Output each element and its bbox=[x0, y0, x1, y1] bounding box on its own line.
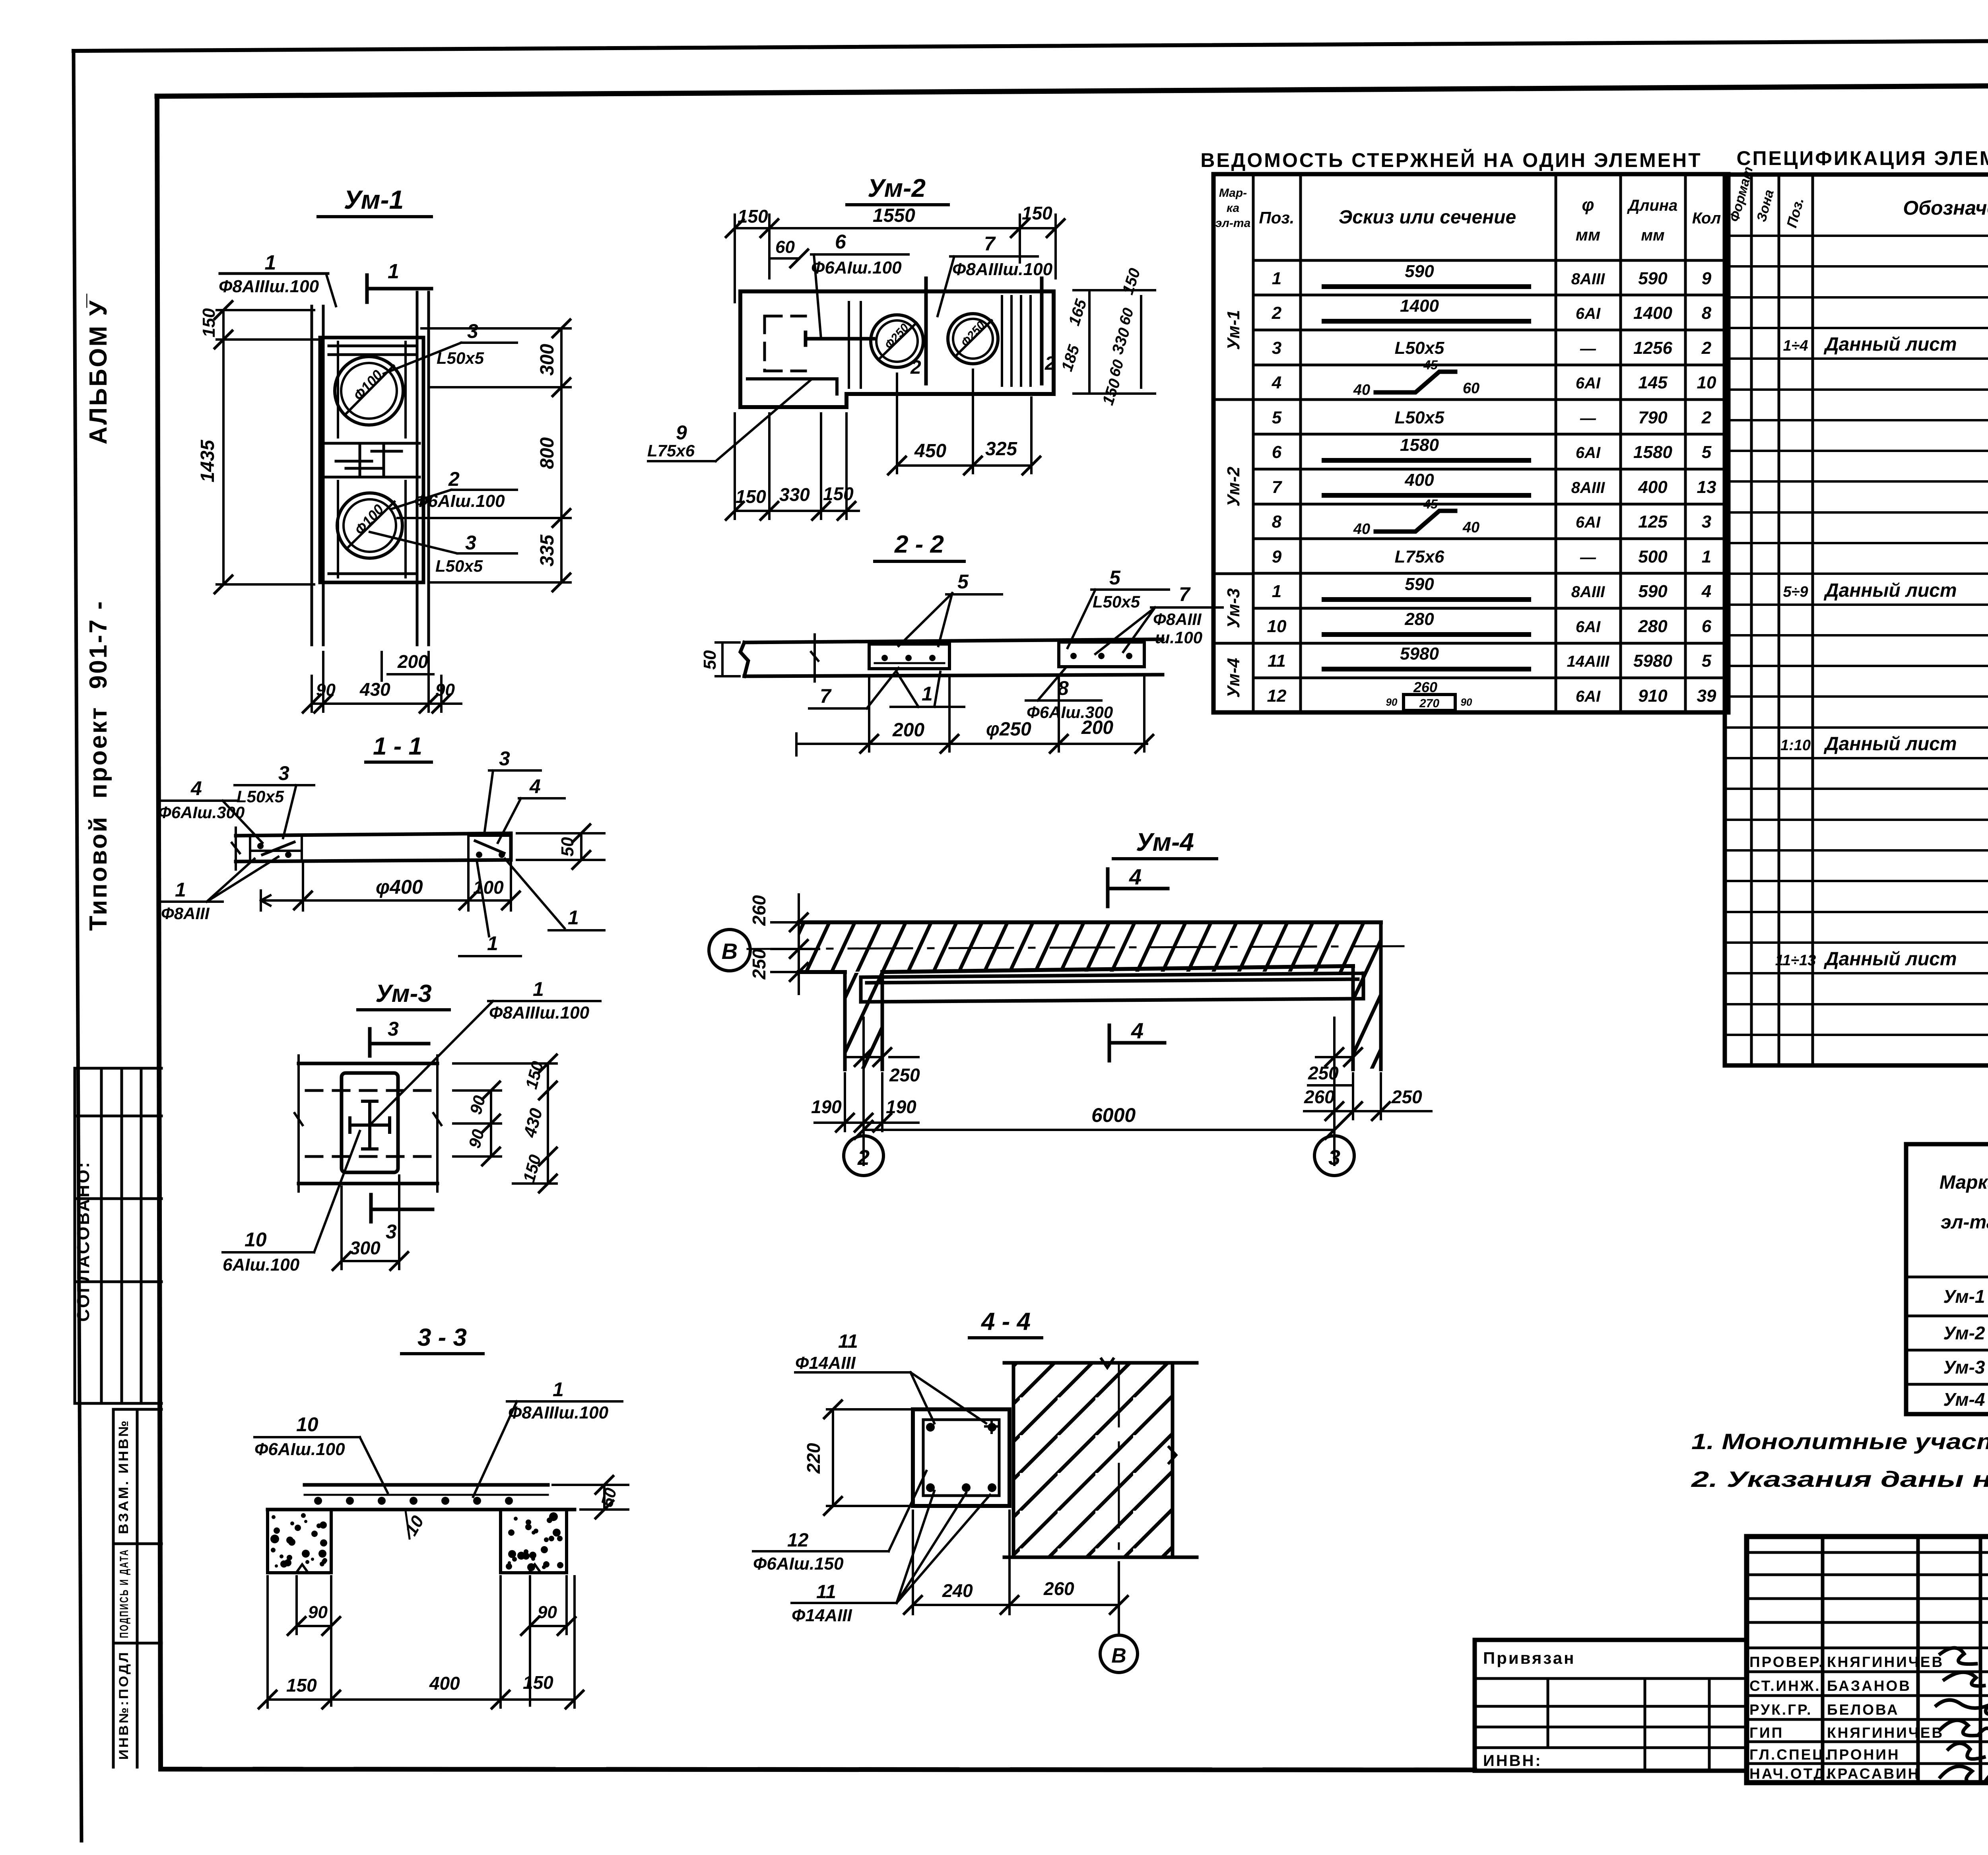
svg-text:1. Монолитные участки замарк: 1. Монолитные участки замаркированы на л… bbox=[1691, 1429, 1988, 1454]
svg-text:1550: 1550 bbox=[873, 205, 915, 226]
svg-text:200: 200 bbox=[892, 720, 924, 741]
svg-text:—: — bbox=[1580, 549, 1596, 566]
svg-text:L50x5: L50x5 bbox=[435, 557, 483, 575]
svg-text:φ400: φ400 bbox=[376, 876, 423, 898]
vedomost vertical grid bbox=[1253, 174, 1685, 712]
spec header labels bbox=[1727, 165, 1988, 229]
section mark 4 mid bbox=[1109, 1025, 1165, 1061]
svg-text:240: 240 bbox=[942, 1580, 973, 1601]
vedomost horizontal grid bbox=[1253, 260, 1728, 678]
spec rows content bbox=[1775, 273, 1988, 1031]
svg-text:Ф6АIш.150: Ф6АIш.150 bbox=[753, 1554, 844, 1574]
svg-text:250: 250 bbox=[1391, 1087, 1422, 1107]
leader 3 L50x5 top bbox=[384, 343, 517, 374]
УМ-1 cage box bbox=[320, 338, 423, 582]
pipe circle bottom bbox=[337, 493, 402, 558]
svg-text:Ум-3: Ум-3 bbox=[1224, 588, 1243, 628]
svg-text:10: 10 bbox=[401, 1512, 428, 1539]
svg-text:Ум-4: Ум-4 bbox=[1224, 658, 1243, 698]
leader 3 L50x5 bottom bbox=[370, 532, 517, 553]
svg-text:39: 39 bbox=[1697, 686, 1716, 706]
svg-text:Ф8АIII: Ф8АIII bbox=[1153, 610, 1202, 629]
svg-text:12: 12 bbox=[1267, 686, 1287, 706]
svg-text:L50x5: L50x5 bbox=[1395, 338, 1444, 358]
svg-text:6АI: 6АI bbox=[1576, 374, 1601, 392]
svg-text:1580: 1580 bbox=[1400, 435, 1439, 455]
УМ-3 band edges bbox=[299, 1063, 437, 1184]
svg-text:L50x5: L50x5 bbox=[1395, 408, 1444, 427]
svg-text:ВЕДОМОСТЬ СТЕРЖНЕЙ НА ОДИН ЭЛЕ: ВЕДОМОСТЬ СТЕРЖНЕЙ НА ОДИН ЭЛЕМЕНТ bbox=[1200, 149, 1702, 171]
svg-text:260: 260 bbox=[749, 895, 769, 926]
right support sub dims 250 260 250 bbox=[1308, 1057, 1353, 1085]
svg-text:8: 8 bbox=[1272, 512, 1282, 532]
svg-text:Ум-1: Ум-1 bbox=[1943, 1286, 1985, 1307]
1-1 break left bbox=[232, 828, 240, 869]
svg-text:3 - 3: 3 - 3 bbox=[417, 1324, 467, 1351]
2-2 left insert box bbox=[869, 644, 949, 669]
svg-text:7: 7 bbox=[1179, 583, 1191, 605]
pipe circle right bbox=[948, 314, 998, 364]
section mark 3 top bbox=[370, 1029, 429, 1056]
svg-text:4: 4 bbox=[1131, 1018, 1143, 1043]
svg-text:150: 150 bbox=[523, 1672, 553, 1693]
svg-text:300: 300 bbox=[537, 344, 558, 376]
svg-text:3: 3 bbox=[465, 532, 476, 554]
vyborka data bbox=[1943, 1286, 1988, 1410]
svg-text:6: 6 bbox=[1272, 442, 1282, 462]
svg-text:Ф6АIш.100: Ф6АIш.100 bbox=[414, 491, 505, 511]
svg-text:L75x6: L75x6 bbox=[647, 441, 695, 460]
svg-text:мм: мм bbox=[1576, 225, 1600, 244]
svg-text:8АIII: 8АIII bbox=[1571, 270, 1605, 288]
svg-text:Ум-1: Ум-1 bbox=[1224, 310, 1243, 350]
svg-text:Ф8АIIIш.100: Ф8АIIIш.100 bbox=[219, 277, 319, 296]
svg-text:10: 10 bbox=[1697, 373, 1716, 392]
svg-text:Данный лист: Данный лист bbox=[1823, 580, 1957, 601]
svg-text:165: 165 bbox=[1065, 297, 1090, 328]
svg-text:КНЯГИНИЧЕВ: КНЯГИНИЧЕВ bbox=[1827, 1654, 1944, 1670]
svg-text:Данный лист: Данный лист bbox=[1823, 334, 1957, 355]
svg-text:ИНВН:: ИНВН: bbox=[1483, 1752, 1542, 1770]
svg-text:190: 190 bbox=[886, 1096, 916, 1117]
right support block (stippled) bbox=[501, 1510, 567, 1573]
svg-text:4: 4 bbox=[529, 775, 541, 797]
svg-text:Ф6АIш.100: Ф6АIш.100 bbox=[254, 1440, 345, 1459]
svg-text:В: В bbox=[722, 939, 738, 964]
svg-text:Ф14АIII: Ф14АIII bbox=[792, 1606, 852, 1625]
svg-text:СТ.ИНЖ.: СТ.ИНЖ. bbox=[1749, 1678, 1821, 1694]
dims 90 90 bbox=[297, 1576, 567, 1706]
svg-text:Типовой проект 901-7 -: Типовой проект 901-7 - bbox=[85, 600, 112, 931]
band break right bbox=[433, 1056, 441, 1191]
svg-text:3: 3 bbox=[278, 762, 289, 784]
svg-text:590: 590 bbox=[1405, 574, 1434, 594]
rebar verticals right cluster bbox=[1002, 296, 1031, 386]
2-2 bottom dims 200 f250 200 bbox=[796, 676, 1147, 751]
svg-text:1 - 1: 1 - 1 bbox=[373, 733, 422, 760]
svg-text:90: 90 bbox=[538, 1603, 557, 1622]
svg-text:450: 450 bbox=[914, 440, 946, 462]
svg-text:2: 2 bbox=[910, 357, 921, 378]
svg-text:1÷4: 1÷4 bbox=[1783, 338, 1808, 354]
svg-text:330: 330 bbox=[779, 484, 810, 505]
signatures squiggles bbox=[1936, 1648, 1988, 1783]
svg-text:Ф14АIII: Ф14АIII bbox=[795, 1353, 856, 1373]
svg-text:ГИП: ГИП bbox=[1749, 1725, 1784, 1741]
svg-text:Обозначение: Обозначение bbox=[1903, 197, 1988, 219]
svg-text:14АIII: 14АIII bbox=[1567, 653, 1610, 670]
privyazan table bbox=[1475, 1640, 1747, 1771]
svg-text:325: 325 bbox=[985, 439, 1017, 460]
svg-text:Длина: Длина bbox=[1627, 197, 1678, 214]
svg-text:90: 90 bbox=[1461, 696, 1472, 708]
svg-text:90: 90 bbox=[1386, 696, 1398, 708]
vedomost sketch bars bbox=[1324, 287, 1529, 669]
svg-text:φ: φ bbox=[1582, 195, 1594, 215]
50 dim left bbox=[716, 642, 740, 676]
svg-text:3: 3 bbox=[1328, 1146, 1340, 1170]
stamp margin boxes lower bbox=[113, 1409, 161, 1767]
svg-text:7: 7 bbox=[1272, 477, 1283, 497]
lower-left dims 150 330 150 bbox=[735, 413, 859, 519]
wall hatched bbox=[1013, 1363, 1173, 1557]
svg-text:6АI: 6АI bbox=[1576, 618, 1601, 636]
svg-text:КРАСАВИН: КРАСАВИН bbox=[1827, 1766, 1920, 1782]
svg-text:1: 1 bbox=[533, 978, 544, 1000]
svg-text:Ум-2: Ум-2 bbox=[1224, 466, 1243, 506]
svg-text:3: 3 bbox=[388, 1018, 399, 1040]
svg-text:8: 8 bbox=[1702, 303, 1712, 323]
svg-text:7: 7 bbox=[984, 233, 996, 255]
dim f400 100 bbox=[261, 863, 511, 910]
1-1 right insert box bbox=[468, 836, 511, 860]
svg-text:ПРОВЕР.: ПРОВЕР. bbox=[1749, 1654, 1824, 1670]
svg-text:6: 6 bbox=[1702, 617, 1712, 636]
bar 6 with hooks bbox=[806, 332, 874, 345]
right end wall of slab bbox=[1353, 922, 1381, 1069]
svg-text:2: 2 bbox=[448, 468, 460, 490]
svg-text:Ум-4: Ум-4 bbox=[1943, 1389, 1985, 1410]
svg-text:эл-та: эл-та bbox=[1215, 217, 1251, 230]
bent bar sketch row 4 bbox=[1376, 372, 1455, 392]
svg-text:300: 300 bbox=[350, 1238, 381, 1258]
svg-text:5: 5 bbox=[1109, 567, 1121, 589]
svg-text:40: 40 bbox=[1462, 519, 1479, 536]
svg-text:5: 5 bbox=[1702, 442, 1712, 462]
svg-text:590: 590 bbox=[1405, 262, 1434, 281]
svg-text:4 - 4: 4 - 4 bbox=[980, 1308, 1031, 1335]
soglasovano box grid bbox=[75, 1068, 161, 1403]
svg-text:9: 9 bbox=[1272, 547, 1282, 567]
svg-text:60: 60 bbox=[1463, 380, 1479, 397]
2-2 break mark bbox=[811, 635, 818, 681]
step hook lower-left bbox=[747, 379, 837, 394]
svg-text:790: 790 bbox=[1638, 408, 1668, 427]
title block left row lines bbox=[1747, 1552, 1988, 1764]
svg-text:260: 260 bbox=[1043, 1578, 1074, 1599]
svg-text:4: 4 bbox=[190, 777, 202, 799]
dim 6000 bbox=[864, 1129, 1334, 1131]
svg-text:2: 2 bbox=[1701, 338, 1712, 358]
svg-text:8АIII: 8АIII bbox=[1571, 583, 1605, 601]
svg-text:7: 7 bbox=[820, 685, 832, 707]
svg-text:Поз.: Поз. bbox=[1783, 196, 1807, 229]
right dim chains bbox=[1074, 290, 1155, 394]
section mark 3 bottom bbox=[371, 1195, 433, 1222]
svg-text:90: 90 bbox=[308, 1603, 328, 1622]
svg-text:45: 45 bbox=[1423, 358, 1438, 372]
svg-text:910: 910 bbox=[1638, 686, 1668, 706]
left dim chain 150/1435 bbox=[217, 310, 318, 584]
svg-text:270: 270 bbox=[1419, 697, 1439, 710]
svg-text:335: 335 bbox=[537, 534, 558, 567]
60 sub dim bbox=[769, 257, 799, 260]
title block main verticals bbox=[1823, 1537, 1988, 1783]
svg-text:280: 280 bbox=[1404, 609, 1434, 629]
left support wall bbox=[845, 972, 882, 1069]
svg-text:100: 100 bbox=[473, 877, 504, 898]
circle 3 bbox=[1314, 1136, 1354, 1176]
svg-text:430: 430 bbox=[359, 679, 390, 700]
svg-text:185: 185 bbox=[1058, 343, 1083, 374]
axis line B bbox=[747, 946, 1404, 949]
svg-text:1: 1 bbox=[175, 879, 186, 901]
bent bar sketch row 8 bbox=[1376, 511, 1455, 532]
svg-text:4: 4 bbox=[1129, 864, 1142, 889]
svg-text:2: 2 bbox=[857, 1146, 870, 1170]
svg-text:L75x6: L75x6 bbox=[1395, 547, 1444, 567]
УМ-2 plan outline bbox=[740, 291, 1054, 407]
svg-text:6000: 6000 bbox=[1091, 1104, 1136, 1126]
svg-text:400: 400 bbox=[1638, 477, 1668, 497]
section cut 2 left bbox=[924, 278, 928, 384]
svg-text:СОГЛАСОВАНО:: СОГЛАСОВАНО: bbox=[74, 1160, 93, 1321]
svg-text:1400: 1400 bbox=[1400, 296, 1439, 316]
svg-text:8АIII: 8АIII bbox=[1571, 479, 1605, 497]
svg-text:СПЕЦИФИКАЦИЯ ЭЛЕМЕНТОВ МОНОЛИТ: СПЕЦИФИКАЦИЯ ЭЛЕМЕНТОВ МОНОЛИТНОЙ КОНСТР… bbox=[1736, 147, 1988, 169]
svg-text:3: 3 bbox=[499, 747, 510, 770]
pipe circle top bbox=[335, 357, 403, 425]
svg-text:2 - 2: 2 - 2 bbox=[894, 531, 944, 558]
column section outer bbox=[913, 1409, 1010, 1506]
svg-text:Ф250: Ф250 bbox=[882, 321, 912, 352]
circle 2 bbox=[862, 1131, 865, 1135]
svg-text:ГЛ.СПЕЦ.: ГЛ.СПЕЦ. bbox=[1749, 1746, 1831, 1763]
rebar dots bbox=[926, 1423, 935, 1432]
svg-text:ИНВ№:ПОДЛ: ИНВ№:ПОДЛ bbox=[116, 1651, 131, 1760]
left support block (stippled) bbox=[268, 1510, 331, 1573]
svg-text:Мар-: Мар- bbox=[1219, 186, 1247, 200]
svg-text:Ф6АIш.100: Ф6АIш.100 bbox=[811, 258, 902, 277]
svg-text:150: 150 bbox=[1119, 266, 1143, 297]
svg-text:БЕЛОВА: БЕЛОВА bbox=[1827, 1702, 1899, 1718]
spec horizontal grid bbox=[1725, 236, 1988, 1035]
svg-text:БАЗАНОВ: БАЗАНОВ bbox=[1827, 1678, 1911, 1694]
svg-text:3: 3 bbox=[467, 320, 478, 342]
svg-text:1: 1 bbox=[388, 260, 399, 283]
svg-text:590: 590 bbox=[1638, 269, 1668, 288]
svg-text:9: 9 bbox=[676, 421, 687, 444]
outer sheet border left bbox=[74, 51, 82, 1841]
svg-text:10: 10 bbox=[1267, 617, 1287, 636]
svg-text:КНЯГИНИЧЕВ: КНЯГИНИЧЕВ bbox=[1827, 1725, 1944, 1741]
section mark 4 top bbox=[1108, 869, 1168, 906]
svg-text:400: 400 bbox=[1404, 470, 1434, 490]
leader 2 Ф6АIш.100 bbox=[392, 490, 517, 509]
svg-text:—: — bbox=[1580, 409, 1596, 427]
svg-text:—: — bbox=[1580, 340, 1596, 357]
svg-text:60: 60 bbox=[1106, 358, 1127, 379]
svg-text:11: 11 bbox=[1268, 651, 1286, 671]
vedomost marka group separators bbox=[1213, 400, 1253, 643]
vedomost data rows bbox=[1267, 262, 1716, 706]
2-2 slab band bbox=[740, 639, 1163, 676]
1-1 slab band bbox=[236, 833, 511, 862]
svg-text:Ум-3: Ум-3 bbox=[1943, 1357, 1985, 1378]
svg-text:200: 200 bbox=[397, 651, 428, 672]
band break left bbox=[295, 1056, 303, 1191]
svg-text:φ250: φ250 bbox=[986, 719, 1031, 740]
circle B bbox=[709, 929, 750, 971]
svg-text:Ф250: Ф250 bbox=[959, 319, 988, 349]
svg-text:ПОДПИСЬ И ДАТА: ПОДПИСЬ И ДАТА bbox=[118, 1549, 131, 1638]
1-1 left insert box bbox=[250, 836, 302, 860]
svg-text:2: 2 bbox=[1272, 303, 1282, 323]
svg-text:Привязан: Привязан bbox=[1483, 1649, 1575, 1667]
right dim chain 300/800/335 bbox=[398, 328, 571, 582]
bottom dims 450 325 bbox=[897, 370, 1031, 473]
svg-text:150: 150 bbox=[738, 206, 768, 227]
svg-text:50: 50 bbox=[558, 837, 577, 856]
wall break marks bbox=[1101, 1359, 1176, 1463]
svg-text:400: 400 bbox=[429, 1673, 460, 1694]
vyborka header labels bbox=[1939, 1150, 1988, 1276]
svg-text:125: 125 bbox=[1638, 512, 1668, 532]
svg-text:5: 5 bbox=[957, 570, 969, 593]
dims 150 400 150 bbox=[268, 1576, 575, 1708]
svg-text:12: 12 bbox=[787, 1530, 809, 1551]
beam УМ-4 bbox=[861, 973, 1363, 1002]
support break marks bbox=[296, 1564, 541, 1573]
svg-text:250: 250 bbox=[889, 1065, 920, 1085]
svg-text:6АI: 6АI bbox=[1576, 688, 1601, 705]
50 dim right bbox=[553, 1485, 628, 1510]
svg-text:6АI: 6АI bbox=[1576, 444, 1601, 462]
svg-text:800: 800 bbox=[537, 437, 558, 469]
svg-text:5÷9: 5÷9 bbox=[1783, 584, 1808, 600]
svg-text:9: 9 bbox=[1702, 269, 1712, 288]
spec outer box bbox=[1725, 175, 1988, 1065]
svg-text:1435: 1435 bbox=[197, 439, 218, 482]
svg-text:ПРОНИН: ПРОНИН bbox=[1827, 1746, 1900, 1763]
top dim 150/1550/150 bbox=[735, 215, 1056, 302]
svg-text:190: 190 bbox=[811, 1096, 842, 1117]
svg-text:11: 11 bbox=[816, 1581, 836, 1603]
svg-text:150: 150 bbox=[1022, 203, 1052, 223]
svg-text:Поз.: Поз. bbox=[1259, 208, 1295, 227]
svg-text:Ф100: Ф100 bbox=[350, 367, 385, 404]
right dim chain outer 150 430 150 bbox=[453, 1063, 557, 1184]
svg-text:220: 220 bbox=[803, 1443, 824, 1474]
svg-text:Ф8АIIIш.100: Ф8АIIIш.100 bbox=[952, 260, 1053, 279]
svg-text:3: 3 bbox=[386, 1220, 397, 1243]
svg-text:6АI: 6АI bbox=[1576, 514, 1601, 531]
cross symbol bbox=[350, 1101, 390, 1149]
УМ-1 slab edge verticals bbox=[312, 292, 429, 645]
svg-text:3: 3 bbox=[1272, 338, 1281, 358]
left support sub dims 250 190 190 bbox=[845, 1056, 918, 1058]
bottom dims 240 260 bbox=[913, 1511, 1119, 1634]
svg-text:мм: мм bbox=[1641, 227, 1664, 244]
svg-text:1256: 1256 bbox=[1633, 338, 1672, 358]
svg-text:11÷13: 11÷13 bbox=[1775, 952, 1816, 969]
svg-text:6: 6 bbox=[835, 231, 846, 253]
svg-text:ВЗАМ. ИНВ№: ВЗАМ. ИНВ№ bbox=[116, 1419, 131, 1534]
svg-text:1400: 1400 bbox=[1633, 303, 1672, 323]
svg-text:Ум-2: Ум-2 bbox=[868, 174, 926, 202]
svg-text:НАЧ.ОТД.: НАЧ.ОТД. bbox=[1749, 1766, 1831, 1782]
vedomost header labels bbox=[1215, 186, 1721, 244]
2-2 right insert box bbox=[1059, 642, 1144, 667]
svg-text:1: 1 bbox=[1272, 269, 1281, 288]
pipe circle left bbox=[871, 315, 923, 367]
svg-text:150: 150 bbox=[823, 483, 854, 504]
svg-text:1: 1 bbox=[1272, 582, 1281, 601]
svg-text:260: 260 bbox=[1304, 1087, 1335, 1107]
svg-text:4: 4 bbox=[1272, 373, 1281, 392]
rebar verticals inside cage bbox=[338, 342, 406, 577]
rebar verticals mid bbox=[849, 302, 861, 388]
vyborka outer box bbox=[1906, 1144, 1988, 1414]
mid bars bbox=[326, 443, 419, 477]
svg-text:13: 13 bbox=[1697, 477, 1716, 497]
svg-text:60: 60 bbox=[1116, 306, 1137, 327]
leader 9 L75x6 bbox=[648, 380, 811, 461]
svg-text:6АI: 6АI bbox=[1576, 305, 1601, 322]
svg-text:3: 3 bbox=[1702, 512, 1711, 532]
svg-text:200: 200 bbox=[1081, 717, 1113, 738]
svg-text:Ф6АIш.300: Ф6АIш.300 bbox=[158, 803, 245, 822]
svg-text:60: 60 bbox=[775, 237, 795, 257]
inner drawing frame bbox=[157, 83, 1988, 96]
svg-text:L50x5: L50x5 bbox=[1093, 592, 1140, 611]
svg-text:150: 150 bbox=[199, 308, 219, 338]
svg-text:Эскиз или сечение: Эскиз или сечение bbox=[1339, 207, 1516, 228]
50 dim right bbox=[517, 833, 604, 860]
svg-text:11: 11 bbox=[838, 1331, 858, 1352]
svg-text:590: 590 bbox=[1638, 582, 1668, 601]
right dim chain inner 90 90 bbox=[453, 1090, 501, 1156]
svg-text:Данный лист: Данный лист bbox=[1823, 949, 1957, 970]
svg-text:90: 90 bbox=[435, 680, 455, 700]
svg-text:250: 250 bbox=[749, 949, 769, 980]
signature rows labels bbox=[1749, 1654, 1944, 1782]
svg-text:4: 4 bbox=[1701, 582, 1711, 601]
svg-text:5: 5 bbox=[1272, 408, 1282, 427]
svg-text:280: 280 bbox=[1638, 617, 1668, 636]
central box bbox=[342, 1073, 398, 1172]
svg-text:ка: ка bbox=[1227, 202, 1239, 215]
svg-text:90: 90 bbox=[316, 680, 336, 700]
svg-text:Ум-2: Ум-2 bbox=[1943, 1323, 1985, 1343]
svg-text:1: 1 bbox=[922, 683, 933, 705]
svg-text:Ум-1: Ум-1 bbox=[344, 185, 404, 214]
svg-text:Ум-4: Ум-4 bbox=[1136, 828, 1194, 856]
spec vertical grid bbox=[1751, 175, 1988, 1065]
svg-text:145: 145 bbox=[1638, 373, 1668, 392]
svg-text:10: 10 bbox=[245, 1228, 267, 1251]
svg-text:1: 1 bbox=[1702, 547, 1711, 567]
